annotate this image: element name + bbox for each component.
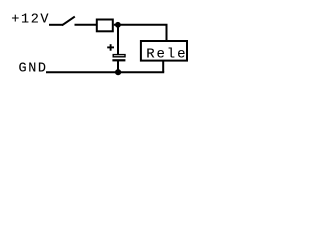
wire resistor to corner: [114, 24, 168, 26]
capacitor C1 top plate (positive, hollow): [113, 55, 125, 57]
net label GND: [19, 61, 48, 76]
wire switch to resistor: [75, 24, 97, 26]
svg-text:GND: GND: [19, 61, 48, 76]
svg-text:Rele: Rele: [146, 46, 187, 62]
svg-text:+12V: +12V: [11, 12, 50, 27]
wire capacitor to ground rail: [117, 61, 119, 72]
wire corner down to relay top: [166, 25, 168, 41]
capacitor C1 polarity plus sign: [107, 44, 114, 51]
capacitor C1 bottom plate (solid): [112, 59, 125, 61]
wire relay bottom to ground rail: [162, 61, 164, 73]
resistor R1: [97, 20, 113, 32]
wire node A down to capacitor: [117, 25, 119, 55]
node B junction dot on ground rail: [115, 69, 121, 75]
net label +12V: [11, 12, 50, 27]
switch S1 blade: [62, 17, 75, 26]
relay U1 box: [141, 41, 187, 61]
wire +12V to switch: [49, 24, 63, 26]
ground rail GND wire: [46, 71, 164, 73]
node A junction dot: [115, 22, 121, 28]
relay label Rele: [146, 46, 187, 62]
